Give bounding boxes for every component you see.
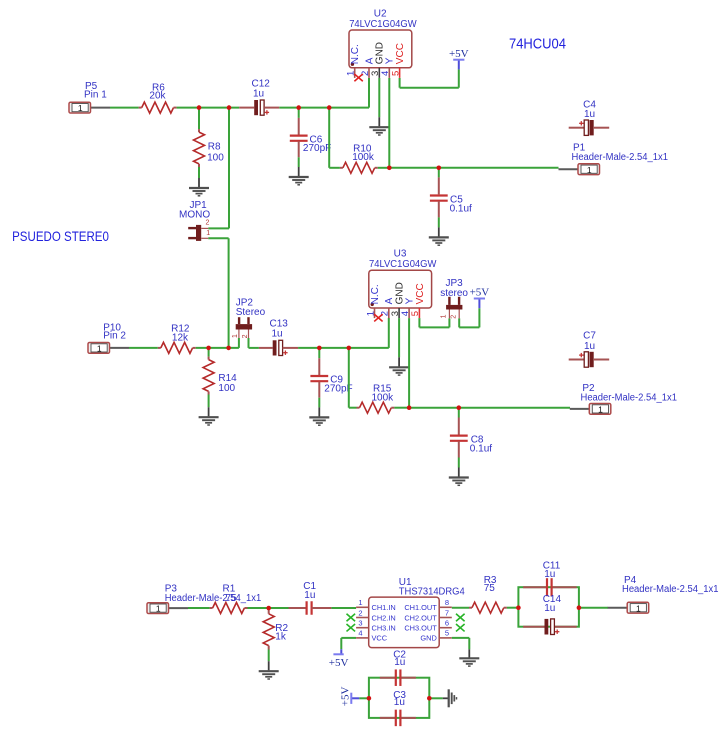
svg-text:74LVC1G04GW: 74LVC1G04GW (349, 19, 417, 30)
svg-text:5: 5 (410, 311, 421, 316)
svg-text:Stereo: Stereo (236, 307, 266, 318)
svg-text:CH1.OUT: CH1.OUT (404, 603, 437, 612)
svg-text:1u: 1u (544, 569, 555, 580)
svg-text:U2: U2 (374, 8, 387, 19)
svg-text:Pin 1: Pin 1 (84, 90, 107, 101)
svg-text:VCC: VCC (395, 43, 406, 64)
svg-text:74LVC1G04GW: 74LVC1G04GW (369, 259, 437, 270)
svg-text:VCC: VCC (372, 634, 388, 643)
svg-text:1: 1 (156, 604, 161, 614)
svg-text:74HCU04: 74HCU04 (509, 35, 566, 52)
svg-text:1: 1 (636, 603, 641, 613)
svg-text:75: 75 (226, 593, 238, 604)
svg-text:1: 1 (598, 405, 603, 415)
svg-text:2: 2 (450, 315, 457, 319)
svg-text:100: 100 (207, 152, 224, 163)
svg-text:Header-Male-2.54_1x1: Header-Male-2.54_1x1 (622, 584, 719, 595)
svg-text:N.C.: N.C. (350, 44, 361, 64)
svg-text:Header-Male-2.54_1x1: Header-Male-2.54_1x1 (165, 593, 262, 604)
svg-text:2: 2 (242, 334, 249, 338)
svg-text:1u: 1u (272, 329, 283, 340)
svg-text:CH1.IN: CH1.IN (372, 603, 396, 612)
svg-text:stereo: stereo (440, 288, 468, 299)
svg-text:0.1uf: 0.1uf (470, 444, 492, 455)
svg-text:Header-Male-2.54_1x1: Header-Male-2.54_1x1 (581, 393, 678, 404)
svg-text:12k: 12k (172, 333, 189, 344)
svg-text:+5V: +5V (339, 686, 351, 706)
svg-text:5: 5 (445, 629, 449, 638)
svg-text:270pF: 270pF (303, 143, 331, 154)
svg-text:1: 1 (97, 344, 102, 354)
svg-text:+5V: +5V (329, 657, 349, 669)
svg-text:6: 6 (445, 619, 449, 628)
svg-text:Pin 2: Pin 2 (103, 331, 126, 342)
svg-text:1: 1 (232, 334, 239, 338)
svg-text:1u: 1u (544, 603, 555, 614)
svg-text:1: 1 (441, 314, 448, 318)
svg-text:1u: 1u (253, 89, 264, 100)
svg-text:2: 2 (358, 608, 362, 617)
svg-text:U3: U3 (394, 249, 407, 260)
svg-text:1u: 1u (304, 590, 315, 601)
svg-text:Header-Male-2.54_1x1: Header-Male-2.54_1x1 (572, 152, 669, 163)
svg-text:1u: 1u (394, 657, 405, 668)
svg-text:4: 4 (358, 629, 362, 638)
svg-text:JP3: JP3 (446, 278, 464, 289)
svg-text:100: 100 (218, 383, 235, 394)
svg-text:1: 1 (206, 230, 210, 237)
svg-text:8: 8 (445, 598, 449, 607)
svg-text:CH3.OUT: CH3.OUT (404, 624, 437, 633)
svg-text:3: 3 (358, 619, 362, 628)
svg-text:GND: GND (420, 634, 436, 643)
svg-text:100k: 100k (372, 392, 395, 403)
svg-text:+5V: +5V (449, 48, 469, 60)
svg-text:100k: 100k (352, 152, 375, 163)
svg-text:+5V: +5V (470, 287, 490, 299)
svg-text:1u: 1u (584, 341, 595, 352)
svg-text:75: 75 (484, 583, 496, 594)
svg-text:7: 7 (445, 608, 449, 617)
svg-text:1u: 1u (584, 109, 595, 120)
svg-text:5: 5 (390, 71, 401, 76)
svg-text:1u: 1u (394, 697, 405, 708)
svg-text:R8: R8 (208, 142, 221, 153)
svg-text:1: 1 (78, 103, 83, 113)
svg-text:CH3.IN: CH3.IN (372, 624, 396, 633)
svg-text:0.1uf: 0.1uf (450, 204, 472, 215)
svg-text:1: 1 (358, 598, 362, 607)
svg-text:2: 2 (205, 220, 209, 227)
svg-text:PSUEDO STERE0: PSUEDO STERE0 (12, 228, 109, 244)
svg-text:1: 1 (587, 165, 592, 175)
svg-text:THS7314DRG4: THS7314DRG4 (399, 586, 465, 597)
svg-text:N.C.: N.C. (370, 284, 381, 304)
svg-text:CH2.OUT: CH2.OUT (404, 613, 437, 622)
svg-text:VCC: VCC (415, 283, 426, 304)
svg-text:1k: 1k (275, 632, 287, 643)
svg-text:CH2.IN: CH2.IN (372, 613, 396, 622)
svg-text:20k: 20k (149, 90, 166, 101)
